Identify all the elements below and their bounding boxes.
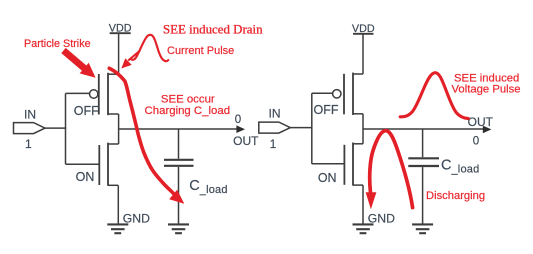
capacitor C_load (right): top plate <box>408 157 439 159</box>
ground symbol (right capacitor) <box>412 224 433 233</box>
svg-text:1: 1 <box>270 137 277 151</box>
pmos M3 (OFF, right): gate bar <box>343 74 345 115</box>
wire: right capacitor to ground <box>422 167 424 223</box>
output arrowhead (right OUT) <box>483 126 492 134</box>
capacitor C_load (left): top plate <box>164 159 194 161</box>
wire: left output net <box>119 128 237 130</box>
nmos M2 (ON, left): channel bar <box>107 143 109 186</box>
svg-text:C_load: C_load <box>441 158 479 176</box>
input port IN (right inverter) <box>259 122 291 133</box>
nmos M4 (ON, right): source stub <box>353 184 363 186</box>
ground symbol (left capacitor) <box>168 224 189 233</box>
nmos M2 (ON, left): source stub <box>108 184 118 186</box>
svg-text:OUT: OUT <box>233 134 259 148</box>
svg-text:C_load: C_load <box>189 178 227 196</box>
svg-text:GND: GND <box>368 211 395 225</box>
input port IN (left inverter) <box>14 123 46 134</box>
wire: left NMOS drain up to output node <box>118 129 120 144</box>
svg-text:OFF: OFF <box>74 104 99 118</box>
pmos M3 (OFF, right): channel bar <box>352 73 354 115</box>
nmos M4 (ON, right): drain stub <box>353 143 363 145</box>
pmos M1 (OFF, left): channel bar <box>107 73 109 115</box>
annotation waveform: SEE induced voltage pulse <box>400 73 468 119</box>
pmos M1 (OFF, left): gate bubble <box>90 90 98 98</box>
wire: left PMOS drain down to output node <box>118 114 120 129</box>
annotation arrow: particle strike (thick red) <box>61 48 95 78</box>
annotation arrow: discharging current path (red arch) <box>370 131 413 208</box>
nmos M2 (ON, left): gate bar <box>98 145 100 185</box>
svg-text:Current Pulse: Current Pulse <box>167 45 234 57</box>
pmos M3 (OFF, right): drain stub <box>353 113 363 115</box>
wire: right output node to load capacitor <box>422 129 424 157</box>
svg-text:Discharging: Discharging <box>426 190 485 202</box>
nmos M4 (ON, right): gate bar <box>343 145 345 185</box>
svg-text:GND: GND <box>123 211 150 225</box>
svg-text:ON: ON <box>76 170 95 184</box>
ground symbol (left NMOS source) <box>107 224 128 233</box>
annotation arrow: charging current path into C_load (red curve) <box>109 68 174 194</box>
wire: left PMOS gate wire <box>66 92 90 94</box>
svg-text:IN: IN <box>24 108 36 122</box>
svg-text:Particle Strike: Particle Strike <box>24 38 91 50</box>
wire: right PMOS gate wire <box>312 92 333 94</box>
svg-text:Voltage Pulse: Voltage Pulse <box>452 84 521 96</box>
svg-text:0: 0 <box>473 136 479 148</box>
wire: right NMOS source to ground <box>362 185 364 223</box>
svg-text:SEE induced Drain: SEE induced Drain <box>163 23 263 37</box>
svg-text:VDD: VDD <box>352 23 375 35</box>
svg-text:Charging C_load: Charging C_load <box>145 105 231 117</box>
wire: left output node to load capacitor <box>178 129 180 159</box>
capacitor C_load (left): bottom plate <box>164 165 194 167</box>
wire: right NMOS gate wire <box>312 163 345 165</box>
pmos M3 (OFF, right): source stub to VDD <box>353 73 363 75</box>
nmos M2 (ON, left): drain stub <box>108 143 119 145</box>
wire: left gate bus vertical <box>65 93 67 164</box>
svg-text:ON: ON <box>318 171 337 185</box>
power symbol VDD (left): rail bar <box>110 32 131 34</box>
pmos M1 (OFF, left): drain stub <box>108 113 119 115</box>
power symbol VDD (right): rail bar <box>353 33 374 35</box>
wire: left NMOS source to ground <box>117 185 119 223</box>
capacitor C_load (right): bottom plate <box>408 165 439 167</box>
pmos M1 (OFF, left): source stub to VDD <box>108 73 119 75</box>
wire: right gate bus vertical <box>311 93 313 164</box>
pmos M3 (OFF, right): gate bubble <box>333 90 341 98</box>
output arrowhead (left OUT) <box>236 125 245 133</box>
annotation arrow: pulse pointing to drain (small red) <box>128 51 140 61</box>
wire: left capacitor to ground <box>178 167 180 224</box>
wire: right VDD drop <box>362 35 364 75</box>
annotation waveform: SEE induced drain current pulse <box>131 35 168 61</box>
wire: left VDD drop <box>118 34 120 74</box>
wire: right NMOS drain up to output node <box>362 129 364 144</box>
pmos M1 (OFF, left): gate bar <box>98 74 100 115</box>
wire: left NMOS gate wire <box>66 163 100 165</box>
svg-text:OUT: OUT <box>468 115 494 129</box>
wire: right input to gate bus <box>290 127 312 129</box>
svg-text:0: 0 <box>235 114 241 126</box>
svg-text:SEE occur: SEE occur <box>161 94 215 106</box>
nmos M4 (ON, right): channel bar <box>352 143 354 186</box>
wire: right PMOS drain down to output node <box>362 114 364 129</box>
ground symbol (right NMOS source) <box>353 224 374 233</box>
svg-text:OFF: OFF <box>314 103 339 117</box>
wire: right output net <box>363 128 483 130</box>
wire: left input to gate bus <box>45 127 66 129</box>
svg-text:IN: IN <box>269 107 281 121</box>
svg-text:1: 1 <box>25 137 32 151</box>
svg-text:VDD: VDD <box>109 23 132 35</box>
